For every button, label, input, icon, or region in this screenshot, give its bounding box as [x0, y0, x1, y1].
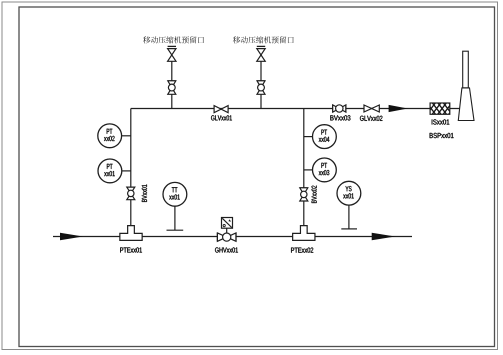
vent stack BSPxx01 — [458, 51, 474, 120]
ball valve branch 2 — [257, 81, 265, 95]
label BVxx02 (vertical) — [312, 186, 317, 203]
ball valve branch 1 — [168, 81, 176, 95]
label BVxx01 (vertical) — [142, 185, 147, 202]
instrument YS xx01 — [337, 181, 361, 229]
instrument TT xx01 (thermowell) — [163, 182, 187, 230]
capped valve branch 1 — [168, 46, 176, 61]
instrument PT xx04 — [304, 125, 337, 149]
label 移动压缩机预留口 (branch 2) — [233, 36, 294, 43]
pipe tee PTExx02 — [293, 226, 315, 241]
wire: branch 2 vertical — [260, 49, 262, 109]
pipe tee PTExx01 — [120, 226, 142, 241]
label BSPxx01 — [430, 133, 454, 138]
ball valve BVxx03 — [333, 105, 346, 112]
label PTExx02 — [291, 248, 313, 253]
instrument PT xx01 — [98, 159, 131, 183]
wire: bottom main pipe line — [53, 236, 412, 238]
label BVxx03 — [330, 115, 350, 120]
wire: branch 1 vertical — [171, 49, 173, 109]
globe valve GLVxx02 — [364, 105, 379, 112]
label GLVxx02 — [360, 116, 382, 121]
ball valve BVxx01 — [127, 187, 135, 200]
flow arrow (to flare) — [389, 105, 408, 112]
instrument PT xx02 — [98, 124, 131, 148]
capped valve branch 2 — [257, 46, 265, 61]
label ISxx01 — [432, 119, 450, 124]
flow arrow inlet (bottom left) — [60, 233, 83, 241]
label GHVxx01 — [215, 247, 238, 252]
wire: right vertical riser — [303, 109, 305, 235]
flame arrestor ISxx01 — [412, 98, 483, 119]
label GLVxx01 — [211, 115, 232, 120]
label PTExx01 — [120, 247, 142, 252]
instrument PT xx03 — [304, 158, 337, 182]
wire: left vertical riser — [130, 109, 132, 235]
globe valve GLVxx01 — [214, 106, 228, 113]
flow arrow outlet (bottom right) — [372, 233, 396, 241]
wire: top header line — [131, 108, 460, 110]
control valve GHVxx01 with actuator — [217, 218, 236, 242]
label 移动压缩机预留口 (branch 1) — [143, 36, 204, 43]
ball valve BVxx02 — [300, 188, 308, 201]
